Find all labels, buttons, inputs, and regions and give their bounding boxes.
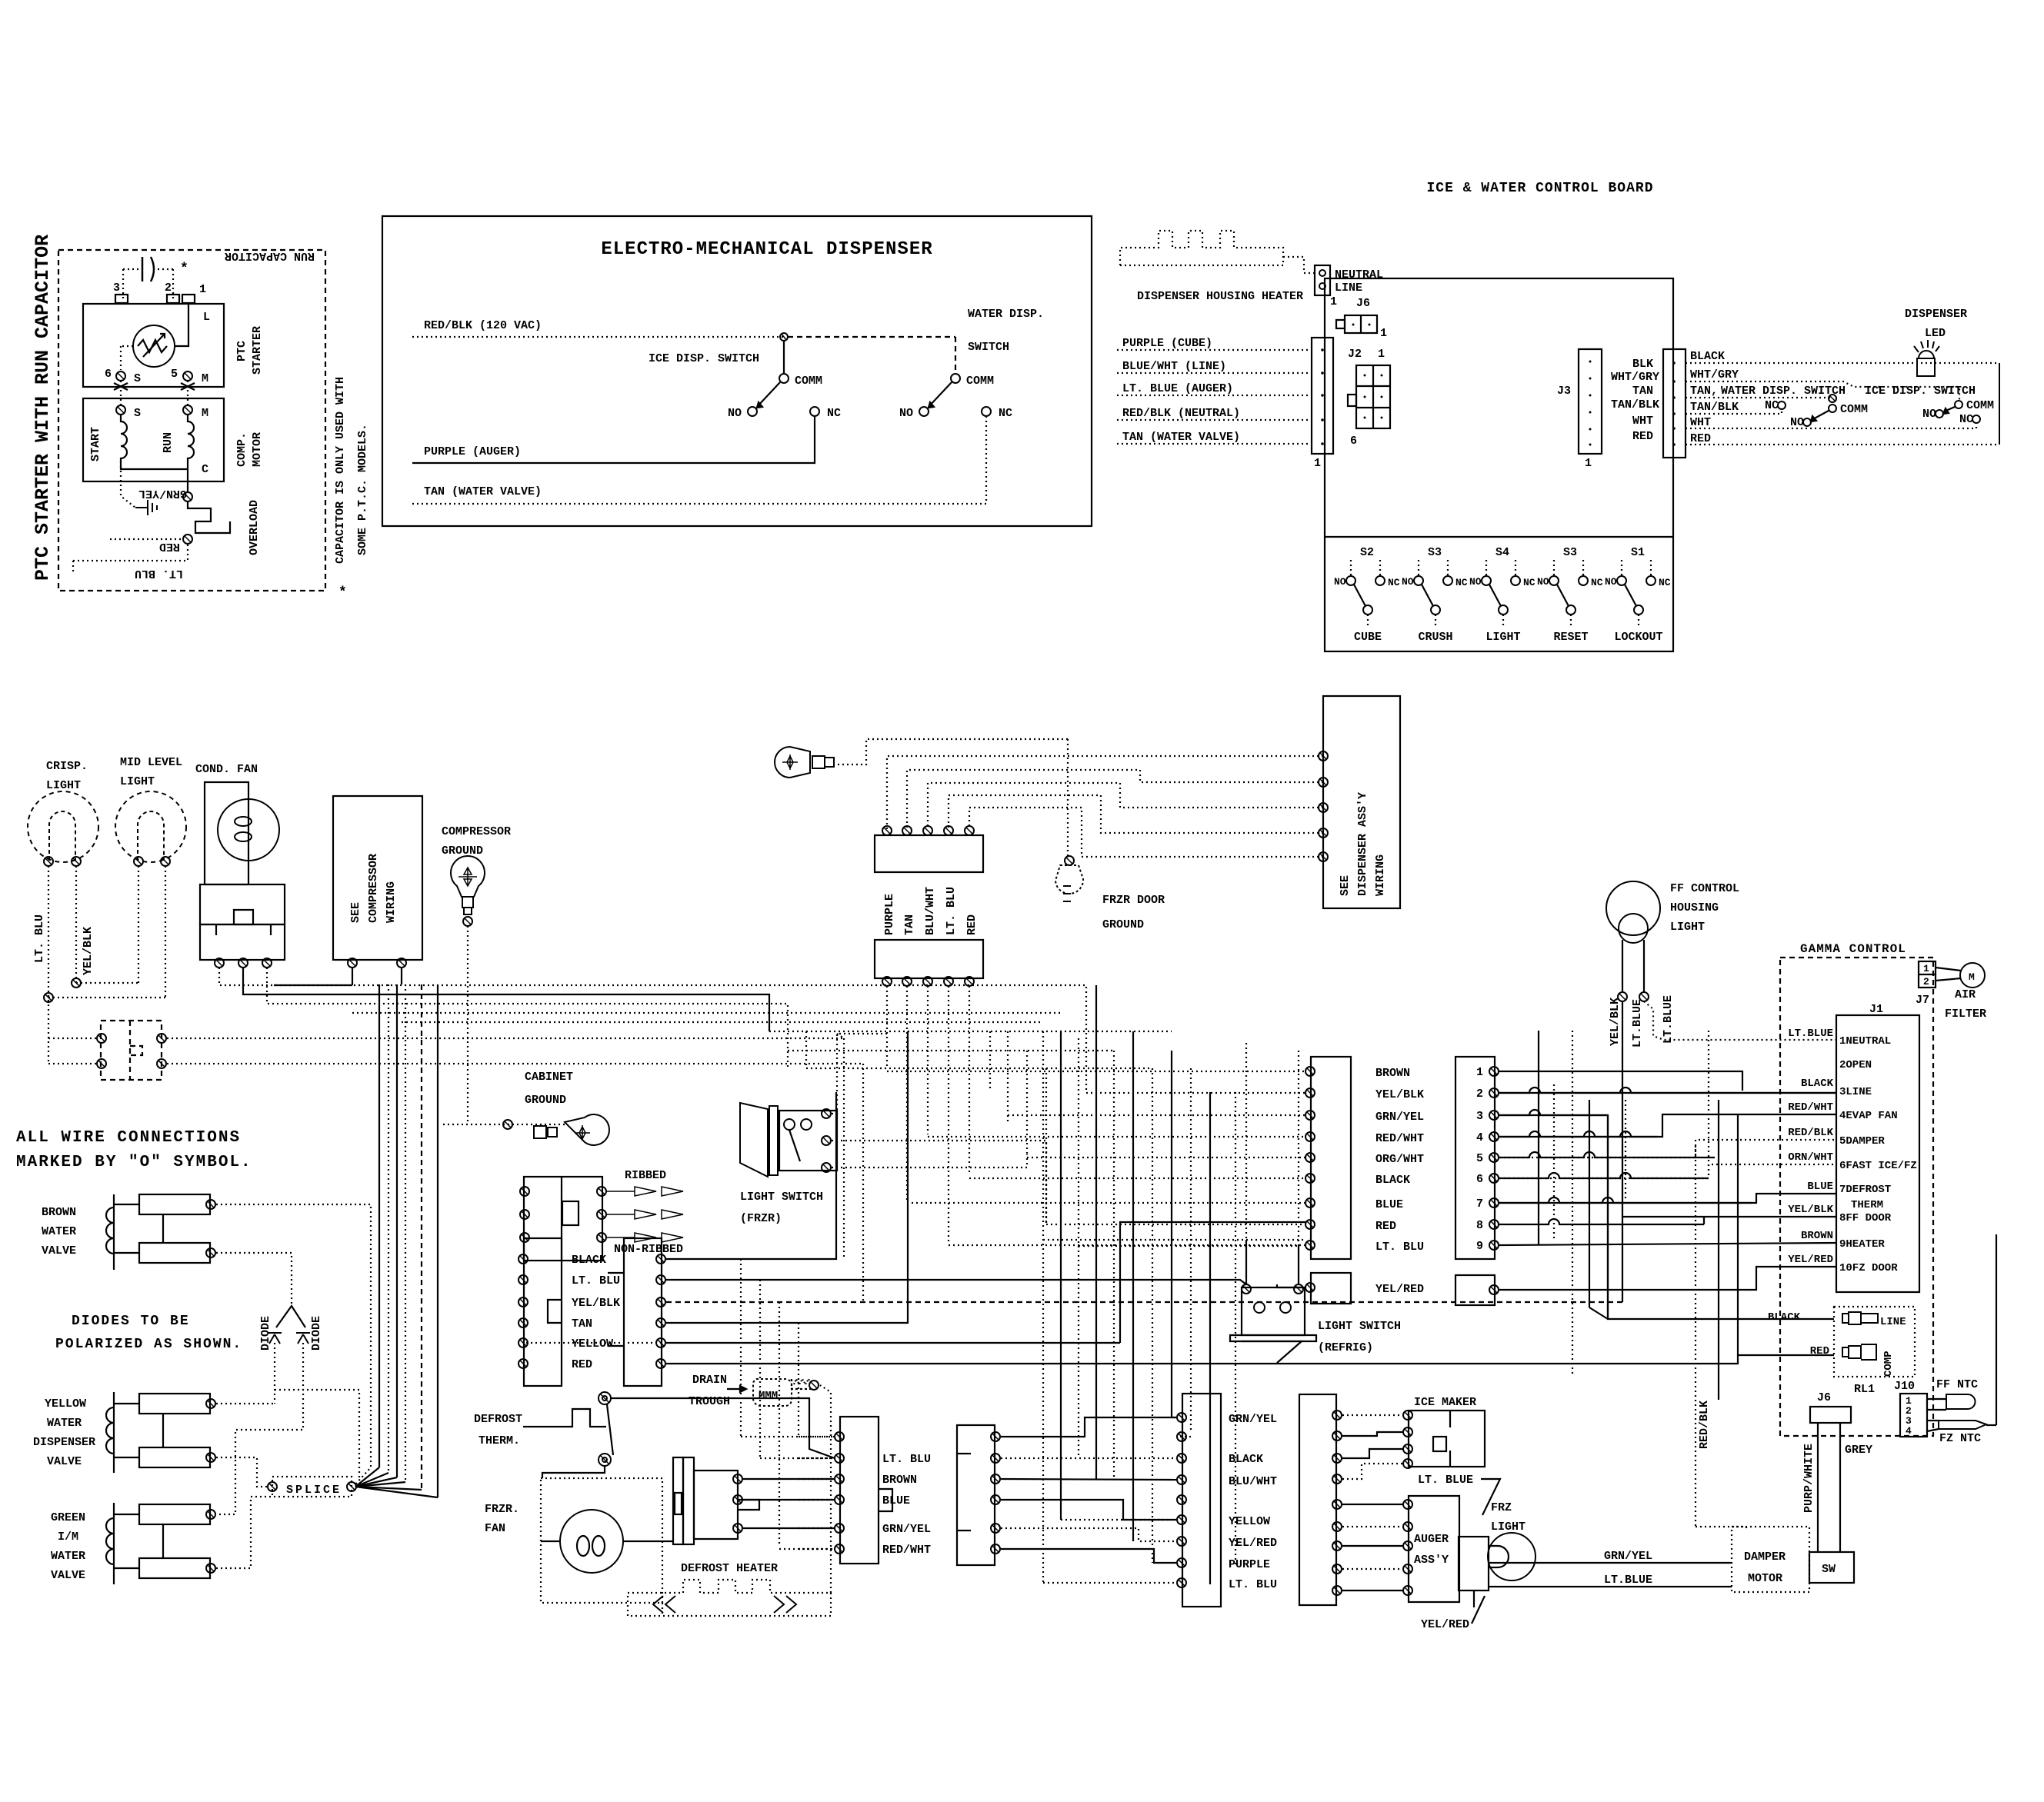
- wire water switch drop: [955, 337, 956, 374]
- compressor ground lug: [451, 856, 485, 914]
- ice maker vdiv2: [1449, 1451, 1451, 1467]
- svg-text:NC: NC: [1659, 577, 1671, 588]
- wire comp ground junction rail: [443, 1124, 565, 1125]
- S2 NO contact: [1346, 576, 1355, 585]
- wire c2 im 3: [1342, 1449, 1403, 1458]
- ff light terminal L: [1618, 992, 1627, 1001]
- svg-text:LIGHT: LIGHT: [1670, 921, 1705, 934]
- svg-text:YEL/BLK: YEL/BLK: [82, 927, 95, 975]
- contact X mark right: [181, 383, 195, 390]
- wire j1 blue row: [1499, 1194, 1836, 1203]
- svg-text:ALL WIRE CONNECTIONS: ALL WIRE CONNECTIONS: [16, 1129, 241, 1147]
- ice maker box: [1409, 1411, 1485, 1467]
- light switch refrig contact b: [1280, 1302, 1291, 1313]
- svg-text:6: 6: [1350, 435, 1357, 448]
- J3 pin dots: [1589, 361, 1592, 446]
- wire terminal1 to L node: [175, 303, 188, 346]
- svg-text:S: S: [134, 372, 141, 385]
- svg-text:(REFRIG): (REFRIG): [1318, 1341, 1373, 1354]
- connector A pin 4: [944, 826, 953, 835]
- connector harness left pin 3: [1305, 1111, 1315, 1120]
- wire rail 1344 stub: [837, 1034, 844, 1038]
- svg-text:6: 6: [1476, 1173, 1483, 1186]
- control board divider: [1325, 536, 1673, 538]
- svg-text:C: C: [202, 463, 208, 476]
- terminal block pin R3: [597, 1233, 606, 1242]
- wire D2 route: [216, 1343, 303, 1514]
- svg-text:MMM: MMM: [759, 1390, 778, 1402]
- svg-text:MOTOR: MOTOR: [1748, 1572, 1782, 1585]
- svg-text:*: *: [180, 261, 188, 277]
- svg-text:DAMPER: DAMPER: [1744, 1551, 1786, 1564]
- ice maker vdiv: [1449, 1411, 1451, 1427]
- PTC thermistor arrow: [143, 334, 165, 357]
- wire cond fan t3 rail: [267, 968, 788, 1069]
- wire harness drop 5 to splice: [355, 1487, 422, 1490]
- wire harness v 2044: [1572, 1031, 1573, 1377]
- junction crisp L: [44, 993, 53, 1002]
- connector harness left: [1311, 1057, 1351, 1259]
- S3 arm: [1422, 585, 1433, 606]
- connector J7: [1919, 961, 1936, 988]
- wire yel/blk ff drop: [1622, 1001, 1623, 1302]
- connector J2: [1356, 365, 1390, 428]
- neutral-line connector: [1315, 265, 1330, 295]
- svg-text:MOTOR: MOTOR: [251, 432, 264, 467]
- connector J6 gamma: [1810, 1407, 1851, 1423]
- ff light lead L: [1622, 940, 1623, 992]
- ice switch arm: [757, 382, 780, 407]
- wire left drop row a: [741, 1436, 834, 1437]
- ribbed arrow pair 3: [607, 1233, 683, 1242]
- brown valve link: [162, 1214, 164, 1243]
- svg-text:LED: LED: [1925, 327, 1946, 340]
- svg-text:J1: J1: [1869, 1003, 1883, 1016]
- auger assy box: [1409, 1496, 1459, 1602]
- svg-text:POLARIZED AS SHOWN.: POLARIZED AS SHOWN.: [55, 1337, 242, 1352]
- light switch refrig pin 1: [1242, 1284, 1251, 1294]
- svg-text:NC: NC: [1765, 399, 1779, 412]
- S4 arm: [1489, 585, 1501, 606]
- connector iceauger right pin 9: [1332, 1586, 1342, 1595]
- ff light terminal R: [1639, 992, 1649, 1001]
- auger pin 4: [1403, 1564, 1412, 1574]
- wire defrost heater right up: [820, 1385, 831, 1593]
- yel/red stub right pin: [1489, 1285, 1499, 1294]
- connector freezer left pin 5: [519, 1338, 528, 1347]
- mid level light bulb: [115, 791, 186, 862]
- svg-text:BLUE: BLUE: [1807, 1181, 1833, 1193]
- diode D2: [296, 1333, 310, 1344]
- wire left drop row c: [779, 1548, 834, 1550]
- wire 9pin row8 hops: [1499, 1219, 1704, 1224]
- ice2 NC contact: [1972, 415, 1980, 423]
- wire harness vertical 1473: [1132, 1031, 1134, 1541]
- wire feed v1335: [1026, 1051, 1028, 1154]
- svg-text:2: 2: [1923, 976, 1929, 988]
- ice maker pin 1: [1403, 1411, 1412, 1420]
- wire feed x1360: [1045, 1224, 1047, 1225]
- svg-text:1: 1: [1380, 327, 1387, 340]
- svg-text:BLU/WHT: BLU/WHT: [924, 887, 937, 935]
- wire feed row 2: [1086, 1092, 1305, 1094]
- wire harness drop 2: [388, 984, 389, 1473]
- frzr fan body: [694, 1471, 738, 1539]
- yellow valve upper lug: [139, 1394, 210, 1414]
- svg-text:J7: J7: [1916, 994, 1929, 1007]
- svg-text:6FAST ICE/FZ: 6FAST ICE/FZ: [1839, 1160, 1917, 1172]
- connector fz mid right pin 3: [991, 1474, 1000, 1484]
- svg-text:RUN: RUN: [162, 432, 175, 453]
- svg-text:RED/BLK (120 VAC): RED/BLK (120 VAC): [424, 319, 542, 332]
- wire mid L drop: [138, 866, 139, 983]
- splice box: [272, 1477, 352, 1497]
- compressor motor box: [83, 398, 224, 481]
- wire run to C terminal: [187, 461, 188, 492]
- see compressor wiring box: [333, 796, 422, 960]
- 9pin pin 9: [1489, 1241, 1499, 1250]
- terminal M motor: [183, 405, 192, 415]
- wire S winding to ground: [121, 461, 135, 508]
- wire refrig row 2: [1079, 1245, 1299, 1247]
- PTC thermistor circle: [133, 325, 175, 367]
- wire refrig riser 2 up: [1298, 1051, 1299, 1246]
- FZ NTC thermistor: [1939, 1421, 1986, 1429]
- svg-text:NC: NC: [1591, 577, 1603, 588]
- S1 NO contact: [1617, 576, 1626, 585]
- connector freezer right pin 2: [656, 1275, 665, 1284]
- dispenser harness ground lug: [775, 747, 834, 778]
- yellow valve coil: [106, 1407, 114, 1454]
- cond fan mid box: [200, 884, 285, 924]
- svg-text:CUBE: CUBE: [1354, 631, 1382, 644]
- svg-text:YEL/BLK: YEL/BLK: [1375, 1088, 1424, 1101]
- water2 arm arrowhead: [1811, 416, 1816, 421]
- wire light switch frzr 1: [832, 1034, 887, 1114]
- terminal overload bottom: [183, 535, 192, 544]
- wire harness v 2090b: [1607, 1115, 1609, 1319]
- wire c1 feed grnyel: [1172, 1417, 1176, 1418]
- auger pin 5: [1403, 1586, 1412, 1595]
- strip pin dot RED/BLK (NEUTRAL): [1321, 418, 1324, 421]
- defrost therm bottom inner: [602, 1457, 607, 1462]
- comp plug symbol: [1842, 1344, 1876, 1360]
- S2 pivot: [1363, 605, 1372, 615]
- strip pin dot TAN (WATER VALVE): [1321, 442, 1324, 445]
- connector freezer right: [624, 1238, 662, 1386]
- connector A pin 3: [923, 826, 932, 835]
- connector iceauger right pin 7: [1332, 1541, 1342, 1551]
- svg-text:WIRING: WIRING: [385, 881, 398, 923]
- connector J2 vdiv: [1372, 365, 1374, 428]
- S3 NO contact: [1549, 576, 1559, 585]
- drain trough terminal: [809, 1381, 819, 1390]
- svg-text:SWITCH: SWITCH: [968, 341, 1009, 354]
- svg-text:BROWN: BROWN: [882, 1474, 917, 1487]
- svg-text:GRN/YEL: GRN/YEL: [138, 487, 187, 500]
- svg-text:PURPLE (CUBE): PURPLE (CUBE): [1122, 337, 1212, 350]
- door switch terminal BL: [97, 1059, 106, 1068]
- 9pin pin 7: [1489, 1198, 1499, 1207]
- wire yellow right up: [1120, 1222, 1305, 1343]
- junction TAN comm: [1829, 395, 1836, 402]
- svg-text:ICE MAKER: ICE MAKER: [1414, 1396, 1476, 1409]
- svg-text:GREEN: GREEN: [51, 1511, 85, 1524]
- svg-text:RIBBED: RIBBED: [625, 1169, 666, 1182]
- connector freezer left pin 6: [519, 1359, 528, 1368]
- svg-text:TAN: TAN: [572, 1317, 592, 1331]
- svg-text:RED: RED: [572, 1358, 592, 1371]
- svg-text:BLUE: BLUE: [1375, 1198, 1403, 1211]
- electro-mechanical dispenser box: [382, 216, 1092, 526]
- svg-text:PURPLE (AUGER): PURPLE (AUGER): [424, 445, 521, 458]
- water switch NO contact: [919, 407, 929, 416]
- terminal block pin R1: [597, 1187, 606, 1196]
- svg-text:YEL/BLK: YEL/BLK: [1788, 1204, 1833, 1216]
- svg-text:S3: S3: [1563, 546, 1577, 559]
- S2 NC stub: [1379, 560, 1381, 575]
- wire harness drop 1: [378, 984, 380, 1467]
- S4 NO contact: [1482, 576, 1491, 585]
- svg-text:NC: NC: [1388, 577, 1400, 588]
- wire harness drop 3: [396, 984, 398, 1477]
- svg-text:1: 1: [1314, 457, 1321, 470]
- wire PTC left down to pin 6: [120, 346, 122, 370]
- svg-text:SOME P.T.C. MODELS.: SOME P.T.C. MODELS.: [356, 424, 369, 555]
- svg-text:5DAMPER: 5DAMPER: [1839, 1135, 1885, 1147]
- wire 5 to M: [187, 381, 188, 405]
- green valve link: [162, 1524, 164, 1558]
- svg-text:LINE: LINE: [1880, 1316, 1906, 1328]
- svg-text:GAMMA CONTROL: GAMMA CONTROL: [1800, 942, 1906, 956]
- svg-text:S1: S1: [1631, 546, 1645, 559]
- svg-text:5: 5: [171, 368, 178, 381]
- wire feed x1310: [1007, 1115, 1009, 1123]
- svg-text:BLACK: BLACK: [1690, 350, 1725, 363]
- light switch frzr wedge: [740, 1103, 778, 1177]
- wire j1 evap row: [1499, 1114, 1836, 1137]
- door switch terminal TL: [97, 1034, 106, 1043]
- crisp light filament: [49, 811, 75, 861]
- wire left drop 988: [759, 1280, 761, 1458]
- wire c2 auger 5: [1342, 1590, 1403, 1591]
- svg-text:LT. BLU: LT. BLU: [135, 567, 183, 580]
- terminal block pin L2: [520, 1210, 529, 1219]
- connector output strip: [1663, 349, 1686, 458]
- frzr door ground lug: [1055, 865, 1083, 901]
- connector B pin 1: [882, 977, 892, 986]
- splice terminal L: [268, 1482, 277, 1491]
- terminal block inner: [562, 1201, 579, 1225]
- wire feed v1287: [989, 1031, 991, 1091]
- svg-text:COMP: COMP: [1882, 1351, 1895, 1377]
- svg-text:WHT/GRY: WHT/GRY: [1611, 371, 1659, 384]
- svg-text:BLUE/WHT (LINE): BLUE/WHT (LINE): [1122, 360, 1226, 373]
- connector B pin 3: [923, 977, 932, 986]
- wire grn/yel damper: [1489, 1562, 1732, 1564]
- wire refrig row lt blu: [1043, 1239, 1305, 1241]
- svg-text:WATER: WATER: [47, 1417, 82, 1430]
- brown valve lower lug: [139, 1243, 210, 1263]
- PTC thermistor zigzag: [138, 340, 167, 352]
- ribbed arrow pair 2: [607, 1210, 683, 1219]
- ice switch COMM contact: [779, 374, 789, 383]
- connector J6 divider: [1360, 315, 1362, 333]
- svg-text:PURP/WHITE: PURP/WHITE: [1802, 1444, 1816, 1513]
- mid light terminal R: [161, 857, 170, 866]
- wire RED fz: [666, 1355, 1834, 1364]
- wire cond fan t1 rail: [219, 968, 1086, 1092]
- svg-text:TAN (WATER VALVE): TAN (WATER VALVE): [1122, 431, 1240, 444]
- svg-text:6: 6: [105, 368, 112, 381]
- connector B lower: [875, 940, 983, 978]
- wire feed row 5: [1027, 1157, 1305, 1158]
- svg-text:PTC STARTER WITH RUN CAPACITOR: PTC STARTER WITH RUN CAPACITOR: [32, 235, 54, 581]
- connector fz mid left pin 2: [835, 1454, 844, 1463]
- svg-text:YEL/RED: YEL/RED: [1788, 1254, 1833, 1266]
- wire cap right to terminal 2: [172, 269, 174, 298]
- svg-text:J10: J10: [1894, 1380, 1915, 1393]
- cond fan inner box: [234, 910, 253, 924]
- svg-text:1: 1: [1476, 1066, 1483, 1079]
- light switch frzr arm: [789, 1130, 800, 1161]
- compressor box terminal 1: [348, 958, 357, 968]
- svg-text:DEFROST: DEFROST: [474, 1413, 522, 1426]
- svg-text:S2: S2: [1360, 546, 1374, 559]
- svg-text:VALVE: VALVE: [51, 1569, 85, 1582]
- wire harness drop 4: [405, 984, 406, 1482]
- wire harness drop 6: [437, 984, 438, 1497]
- wire rail y1366: [788, 1050, 1114, 1051]
- green valve terminal B: [206, 1564, 215, 1573]
- connector J6: [1345, 315, 1377, 333]
- wire harness drop 5: [421, 984, 422, 1490]
- ice switch arm arrowhead: [757, 402, 762, 408]
- wire harness vertical 1379: [1060, 1031, 1062, 1520]
- connector J control 9pin: [1455, 1057, 1495, 1259]
- wire v1606 down: [1235, 1563, 1236, 1567]
- wire j1 fzdoor: [1499, 1267, 1836, 1290]
- svg-text:FRZR DOOR: FRZR DOOR: [1102, 894, 1165, 907]
- svg-text:NC: NC: [1959, 413, 1973, 426]
- water2 NC contact: [1778, 401, 1786, 409]
- light switch refrig base: [1230, 1335, 1316, 1341]
- wire harness v 2113b: [1625, 1100, 1626, 1200]
- wire compressor t2 rail: [401, 968, 402, 984]
- svg-text:WHT: WHT: [1690, 416, 1711, 429]
- svg-text:BLUE: BLUE: [882, 1494, 910, 1507]
- S1 pivot: [1634, 605, 1643, 615]
- svg-text:BLACK: BLACK: [1801, 1078, 1834, 1090]
- wire PTC left lead: [121, 345, 133, 347]
- svg-text:LT.BLUE: LT.BLUE: [1662, 995, 1675, 1044]
- wire j1 line row: [1499, 1092, 1836, 1094]
- S3 NC stub: [1447, 560, 1449, 575]
- wire c1 feed row2: [1176, 1436, 1191, 1437]
- wire c2 auger 1: [1342, 1504, 1403, 1505]
- wire left drop row b: [760, 1457, 839, 1459]
- wire j1 damper row: [1499, 1140, 1836, 1157]
- wire j1 fastice row: [1499, 1164, 1836, 1178]
- wire harness vertical 1402: [1078, 1038, 1079, 1458]
- connector fz mid left pin 4: [835, 1495, 844, 1504]
- wire harness drop 3 to splice: [355, 1477, 397, 1487]
- svg-text:J2: J2: [1348, 348, 1362, 361]
- drain trough arrow lead: [727, 1388, 746, 1390]
- svg-text:LIGHT: LIGHT: [1485, 631, 1520, 644]
- svg-text:BLACK: BLACK: [1375, 1174, 1410, 1187]
- mid light filament: [138, 811, 164, 861]
- svg-text:3: 3: [113, 281, 120, 295]
- connector iceauger left pin 3: [1177, 1454, 1186, 1463]
- S1 NO stub: [1621, 560, 1622, 575]
- S1 pivot stub: [1638, 615, 1639, 628]
- S3 pivot: [1566, 605, 1576, 615]
- wire lights join upper: [76, 982, 138, 984]
- wire WHT: [1686, 424, 1976, 428]
- svg-text:PURPLE: PURPLE: [1229, 1558, 1270, 1571]
- door switch terminal TR: [157, 1034, 166, 1043]
- output strip dot WHT out: [1672, 427, 1676, 430]
- connector freezer left pin 1: [519, 1254, 528, 1264]
- svg-text:RED: RED: [159, 540, 180, 553]
- svg-text:NC: NC: [1455, 577, 1468, 588]
- wire light switch frzr 2: [832, 1141, 1046, 1224]
- ice2 COMM contact: [1955, 401, 1962, 408]
- svg-text:COND. FAN: COND. FAN: [195, 763, 258, 776]
- defrost heater meander: [628, 1580, 831, 1616]
- frz light yel/red lead line: [1472, 1596, 1485, 1624]
- connector iceauger right pin 2: [1332, 1431, 1342, 1441]
- output strip dot TAN out: [1672, 396, 1676, 399]
- dispenser box right edge: [1999, 363, 2000, 445]
- cond fan upper: [205, 782, 248, 884]
- svg-text:BLACK: BLACK: [1768, 1311, 1801, 1324]
- connector harness left pin 2: [1305, 1088, 1315, 1098]
- green valve upper lug: [139, 1504, 210, 1524]
- svg-text:LT. BLU: LT. BLU: [1375, 1241, 1424, 1254]
- svg-text:COMPRESSOR: COMPRESSOR: [367, 854, 380, 923]
- wire dispenser harness 1: [887, 756, 1323, 829]
- cond fan motor circle: [218, 799, 279, 861]
- connector iceauger right pin 3: [1332, 1454, 1342, 1463]
- wire drop blu/wht: [927, 986, 929, 1134]
- svg-text:GRN/YEL: GRN/YEL: [882, 1523, 931, 1536]
- compressor ground terminal: [463, 917, 472, 926]
- water switch arm: [929, 382, 952, 407]
- wire harness drop 6 to splice: [355, 1487, 438, 1497]
- S3 NO stub: [1553, 560, 1555, 575]
- wire dispenser harness 3: [928, 783, 1323, 829]
- svg-text:1: 1: [199, 283, 206, 296]
- connector freezer right pin 3: [656, 1297, 665, 1307]
- wire drop lt blu: [948, 986, 949, 1243]
- wire harness drop 2 to splice: [355, 1473, 388, 1487]
- wire switch out B: [167, 1063, 863, 1064]
- wire harness v 2020: [1553, 1084, 1555, 1238]
- wire yellow valve T to diode: [216, 1403, 275, 1404]
- S1 NC contact: [1646, 576, 1656, 585]
- connector freezer right pin 5: [656, 1338, 665, 1347]
- wire j1 pin3 9p: [1499, 1115, 1834, 1319]
- wire 9pin row5 hops: [1499, 1152, 1715, 1157]
- yellow valve link: [162, 1414, 164, 1447]
- svg-text:LT. BLU: LT. BLU: [33, 914, 46, 963]
- connector iceauger left pin 7: [1177, 1537, 1186, 1546]
- 9pin pin 3: [1489, 1111, 1499, 1120]
- frzr fan circle lead L: [541, 1541, 560, 1542]
- connector fz mid left notch: [879, 1489, 892, 1511]
